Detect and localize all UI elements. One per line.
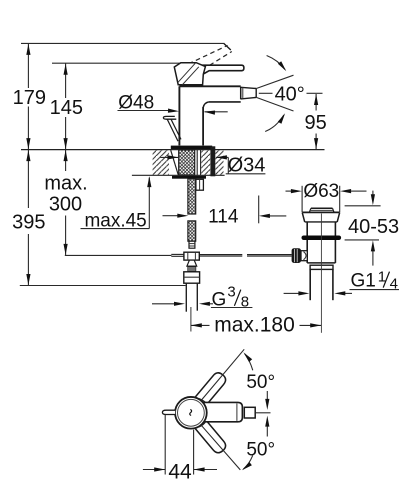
pop-up rod horizontal [171, 254, 291, 256]
pop-up rod knob on body [163, 116, 181, 141]
plan view upper lever position [195, 370, 228, 405]
dimension max.180 [191, 323, 321, 327]
reference line 0 degrees [255, 412, 270, 414]
supply pipe tails [186, 283, 197, 312]
svg-text:395: 395 [12, 211, 45, 233]
threaded adapter [188, 266, 196, 272]
pop-up rod tube through deck [210, 146, 215, 176]
svg-text:179: 179 [13, 87, 46, 109]
pop-up waste flange [302, 212, 340, 222]
svg-text:Ø34: Ø34 [228, 154, 266, 176]
dimension 40-53 lines [345, 191, 381, 266]
base flange [171, 146, 212, 150]
arc arrow upper [243, 352, 252, 370]
svg-text:3: 3 [227, 283, 235, 300]
diagonal 50 degrees upper [201, 349, 244, 400]
faucet body [179, 86, 240, 145]
rod connector [189, 241, 195, 248]
dimension diameter 48 leaders [118, 109, 228, 115]
lever raised position tick [224, 44, 231, 50]
svg-text:50°: 50° [246, 439, 275, 460]
vertical arrows at reference line [265, 391, 269, 437]
svg-text:95: 95 [304, 112, 326, 134]
svg-text:40-53: 40-53 [348, 216, 399, 238]
cone adapter [187, 260, 197, 266]
mounting nut block [196, 179, 204, 190]
extension line lever top height [21, 42, 225, 44]
dimension G1 1/4 arrows [284, 290, 399, 296]
rubber seal ring [302, 236, 342, 241]
rod junction block [184, 252, 199, 260]
dimension diameter 63 arrows [286, 186, 367, 212]
extension line pop-up rod level [65, 254, 172, 256]
svg-text:44: 44 [168, 460, 192, 483]
guide tube through deck [197, 150, 200, 175]
flex hose lower segment [188, 221, 196, 241]
svg-text:Ø48: Ø48 [118, 92, 154, 113]
pop-up waste body [307, 240, 335, 263]
waste centerline [320, 214, 322, 333]
arc arrow lower [242, 455, 253, 470]
dimension 179 vertical line [26, 43, 30, 149]
svg-text:max.180: max.180 [214, 313, 295, 336]
joint curves lever to body [199, 399, 206, 427]
label G1 1/4 [351, 268, 398, 292]
pop-up waste plug [309, 208, 334, 212]
aerator outlet [241, 87, 257, 100]
lever pivot joint [174, 63, 205, 85]
dimension 145 vertical line [64, 63, 68, 149]
svg-text:G1: G1 [351, 270, 376, 291]
deck hatch right blocks [201, 150, 223, 175]
dimension 40 degree reference lines [256, 56, 322, 132]
center mark [190, 409, 192, 415]
svg-text:40°: 40° [275, 84, 305, 106]
deck top line [21, 149, 325, 151]
dimension 44 [143, 415, 217, 475]
coupling ring [310, 265, 333, 269]
hose through deck diagonal [171, 150, 179, 175]
svg-text:50°: 50° [246, 372, 275, 393]
dimension max.300 vertical line [64, 150, 68, 256]
washer under deck [172, 176, 206, 179]
extension line spout body top [52, 62, 196, 64]
dimension 95 vertical line [314, 94, 318, 149]
faucet centerline below pipes [190, 307, 192, 332]
svg-text:Ø63: Ø63 [303, 181, 339, 202]
svg-text:145: 145 [50, 97, 83, 119]
extension line bottom of supply connections [20, 285, 186, 287]
waste tailpipe [310, 269, 333, 300]
svg-text:8: 8 [241, 294, 249, 311]
threaded shank through deck [179, 150, 195, 175]
lever raised position dashed outline [189, 45, 232, 69]
svg-text:G: G [212, 289, 227, 310]
svg-text:max.: max. [44, 172, 87, 194]
svg-text:max.45: max.45 [84, 210, 146, 231]
label G 3/8 [212, 283, 250, 310]
dimension G3/8 arrows [152, 302, 252, 308]
dimension diameter 34 leaders [160, 155, 265, 174]
union nut G3/8 [184, 272, 200, 283]
plan view body circle [175, 397, 207, 429]
deck hatch left block [153, 150, 169, 175]
svg-text:300: 300 [49, 193, 82, 215]
svg-text:114: 114 [208, 207, 239, 228]
plan view rod stub [162, 410, 175, 414]
svg-text:4: 4 [390, 276, 398, 293]
rod attachment knob [292, 248, 308, 263]
dimension 114 arrows [163, 196, 287, 224]
diagonal 50 degrees lower [201, 425, 240, 470]
plan view aerator [244, 407, 255, 418]
plan view lower lever position [195, 420, 228, 455]
flex hose upper segment [188, 179, 196, 214]
dimension 395 vertical line [26, 150, 30, 286]
pop-up waste neck [307, 222, 335, 236]
lever handle [191, 65, 244, 74]
dimension max.45 leader [81, 176, 152, 229]
plan view lever horizontal [197, 402, 242, 421]
deck bottom line [132, 174, 225, 176]
